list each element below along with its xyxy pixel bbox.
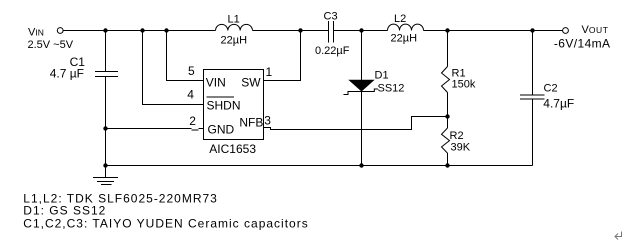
svg-text:VOUT: VOUT bbox=[582, 24, 609, 36]
wire SW pin 1 bbox=[264, 31, 301, 81]
svg-text:SHDN: SHDN bbox=[207, 99, 241, 113]
IC U1 AIC1653 bbox=[204, 70, 264, 140]
resistor R2 bbox=[447, 117, 449, 129]
svg-text:VIN: VIN bbox=[28, 27, 44, 39]
diode D1 wire bbox=[361, 31, 363, 80]
svg-text:3: 3 bbox=[264, 114, 271, 128]
svg-text:R2: R2 bbox=[450, 130, 464, 142]
svg-text:-6V/14mA: -6V/14mA bbox=[554, 36, 611, 50]
output terminal VOUT bbox=[563, 28, 569, 34]
svg-text:C3: C3 bbox=[324, 11, 338, 23]
svg-text:1: 1 bbox=[266, 65, 273, 79]
capacitor C2 bbox=[532, 31, 534, 96]
svg-text:D1: D1 bbox=[375, 70, 389, 82]
wire top rail left (VIN terminal to C3) bbox=[63, 30, 215, 32]
svg-text:5: 5 bbox=[188, 64, 195, 78]
svg-text:39K: 39K bbox=[451, 142, 471, 154]
wire L2 to VOUT terminal bbox=[424, 30, 563, 32]
svg-text:C1,C2,C3: TAIYO YUDEN Ceramic: C1,C2,C3: TAIYO YUDEN Ceramic capacitors bbox=[23, 216, 308, 230]
wire SHDN branch (pin 4) bbox=[143, 31, 204, 105]
svg-text:4.7µF: 4.7µF bbox=[543, 96, 574, 110]
wire VIN branch (pin 5) bbox=[167, 31, 204, 81]
svg-text:0.22µF: 0.22µF bbox=[315, 45, 350, 57]
junction D1/top rail bbox=[359, 28, 363, 32]
svg-text:NFB: NFB bbox=[239, 116, 263, 130]
resistor R1 bbox=[447, 31, 449, 67]
wire NFB pin 3 bbox=[264, 117, 448, 130]
capacitor C3 bbox=[328, 21, 330, 43]
svg-text:SW: SW bbox=[241, 75, 261, 89]
diode D1 bbox=[348, 80, 374, 92]
junction D1/bottom rail bbox=[359, 163, 363, 167]
input terminal VIN bbox=[57, 28, 63, 34]
svg-text:4.7 µF: 4.7 µF bbox=[50, 66, 84, 80]
svg-text:2: 2 bbox=[189, 114, 196, 128]
inductor L1 bbox=[216, 24, 253, 30]
svg-text:L1: L1 bbox=[228, 14, 240, 26]
junction VIN pin branch/top rail bbox=[164, 28, 168, 32]
svg-text:22µH: 22µH bbox=[221, 35, 248, 47]
wire L1 to C3 bbox=[253, 30, 329, 32]
svg-text:AIC1653: AIC1653 bbox=[209, 142, 256, 156]
junction ground/bottom rail bbox=[103, 163, 107, 167]
svg-text:C2: C2 bbox=[544, 83, 558, 95]
node junction dot NFB/R1/R2 bbox=[445, 114, 449, 118]
inductor L2 bbox=[388, 24, 424, 30]
wire GND pin 2 bbox=[106, 128, 192, 130]
svg-text:VIN: VIN bbox=[206, 75, 226, 89]
junction SHDN branch/top rail bbox=[140, 28, 144, 32]
junction C2/top rail bbox=[530, 28, 534, 32]
junction SW/top rail bbox=[298, 28, 302, 32]
ground bbox=[105, 166, 107, 178]
svg-text:SS12: SS12 bbox=[378, 83, 405, 95]
paragraph return mark bbox=[615, 232, 622, 240]
junction C1/top rail bbox=[103, 28, 107, 32]
svg-text:4: 4 bbox=[187, 88, 194, 102]
svg-text:GND: GND bbox=[208, 123, 235, 137]
wire bottom rail bbox=[106, 165, 533, 167]
svg-text:2.5V ~5V: 2.5V ~5V bbox=[28, 39, 74, 51]
SHDN overline bbox=[207, 96, 235, 98]
wire C3 to L2 bbox=[334, 30, 388, 32]
capacitor C1 bbox=[105, 31, 107, 72]
junction R2/bottom rail bbox=[445, 163, 449, 167]
svg-text:D1: GS SS12: D1: GS SS12 bbox=[23, 204, 106, 218]
junction R1/top rail bbox=[445, 28, 449, 32]
svg-text:150k: 150k bbox=[452, 79, 476, 91]
svg-text:22µH: 22µH bbox=[391, 33, 418, 45]
node junction dot GND/C1 bbox=[103, 126, 107, 130]
svg-text:L2: L2 bbox=[394, 13, 406, 25]
